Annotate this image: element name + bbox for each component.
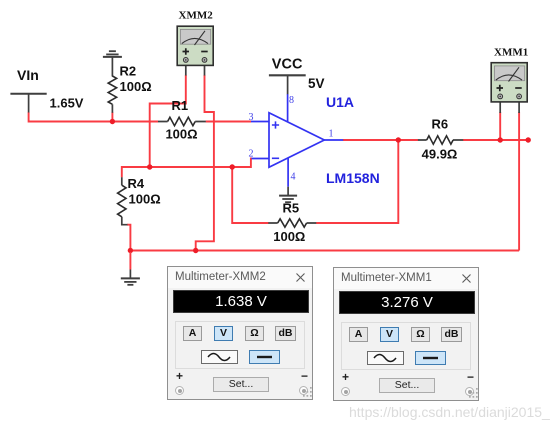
svg-text:100Ω: 100Ω (273, 229, 305, 244)
svg-text:8: 8 (289, 95, 294, 106)
svg-text:4: 4 (291, 172, 296, 183)
op-amp triangle body (269, 113, 324, 168)
svg-text:R1: R1 (172, 98, 189, 113)
op-amp U1A LM158N (249, 94, 380, 187)
svg-text:LM158N: LM158N (326, 170, 380, 186)
svg-text:XMM1: XMM1 (494, 47, 528, 59)
voltage source VIn 1.65V (10, 67, 83, 113)
wire R1 right to op-amp pin 3 (206, 121, 252, 123)
junction node output/feedback (396, 137, 401, 142)
svg-text:100Ω: 100Ω (129, 192, 161, 207)
minus input mark (272, 157, 279, 159)
pin 4 lead (287, 158, 289, 187)
junction node R2/main net (110, 119, 115, 124)
multimeter window XMM1 (333, 267, 479, 401)
junction node R4/ground bus (128, 248, 133, 253)
wire R2 bottom to main net (111, 112, 113, 121)
wire R4 bottom to ground bus (127, 225, 130, 251)
junction node XMM2-/ground bus (193, 248, 198, 253)
plus input mark (272, 121, 279, 128)
junction node output net end (526, 137, 531, 142)
svg-text:R2: R2 (120, 64, 137, 79)
instrument icon XMM2 (177, 10, 213, 76)
wire op-amp output to R6 (343, 139, 418, 141)
wire R5 right feedback to output node (316, 140, 398, 223)
wire XMM1 minus terminal to ground bus (518, 112, 520, 251)
wire XMM2 minus terminal to ground bus (196, 75, 214, 251)
junction node R5 branch/inverting net (230, 164, 235, 169)
svg-text:3: 3 (249, 112, 254, 123)
pin 1 lead (324, 139, 343, 141)
wire R6 right to XMM1 node (463, 139, 528, 141)
wire inverting net down to R5 left (232, 167, 268, 223)
svg-text:49.9Ω: 49.9Ω (422, 147, 458, 162)
svg-text:1: 1 (329, 129, 334, 140)
pin 8 lead (287, 94, 289, 123)
svg-text:R6: R6 (432, 116, 449, 131)
svg-text:VCC: VCC (272, 57, 303, 73)
svg-text:2: 2 (249, 149, 254, 160)
svg-text:XMM2: XMM2 (179, 10, 214, 22)
wire ground bus (130, 250, 519, 252)
svg-text:1.65V: 1.65V (50, 96, 84, 111)
svg-text:VIn: VIn (17, 67, 39, 83)
resistor R1 100ohm (158, 98, 206, 142)
instrument icon XMM1 (491, 47, 528, 114)
wire XMM1 plus terminal down (499, 112, 501, 140)
multimeter window XMM2 (167, 266, 313, 400)
ground (bottom left, below R4 node) (121, 252, 140, 285)
pin 3 lead (251, 121, 269, 123)
pin 2 lead (252, 158, 270, 160)
resistor R2 100ohm (108, 64, 151, 113)
junction node XMM1+/output net (498, 137, 503, 142)
wire inverting net R4 top to op-amp pin 2 (122, 159, 252, 168)
ground (op-amp pin 4) (279, 187, 297, 203)
watermark (349, 404, 550, 420)
wire XMM2 plus terminal to inverting net (150, 75, 186, 167)
svg-text:5V: 5V (308, 76, 325, 91)
svg-text:100Ω: 100Ω (165, 127, 197, 142)
wire VIn to R1 (main input net) (29, 112, 159, 121)
power VCC 5V (269, 57, 325, 95)
svg-text:100Ω: 100Ω (120, 79, 152, 94)
resistor R6 49.9ohm (418, 116, 463, 161)
svg-text:R4: R4 (128, 176, 145, 191)
junction node XMM2+/inverting net (147, 164, 152, 169)
svg-text:U1A: U1A (326, 94, 354, 110)
resistor R4 100ohm (118, 166, 161, 225)
ground (above R2, inverted) (103, 51, 122, 76)
resistor R5 100ohm (268, 201, 316, 245)
